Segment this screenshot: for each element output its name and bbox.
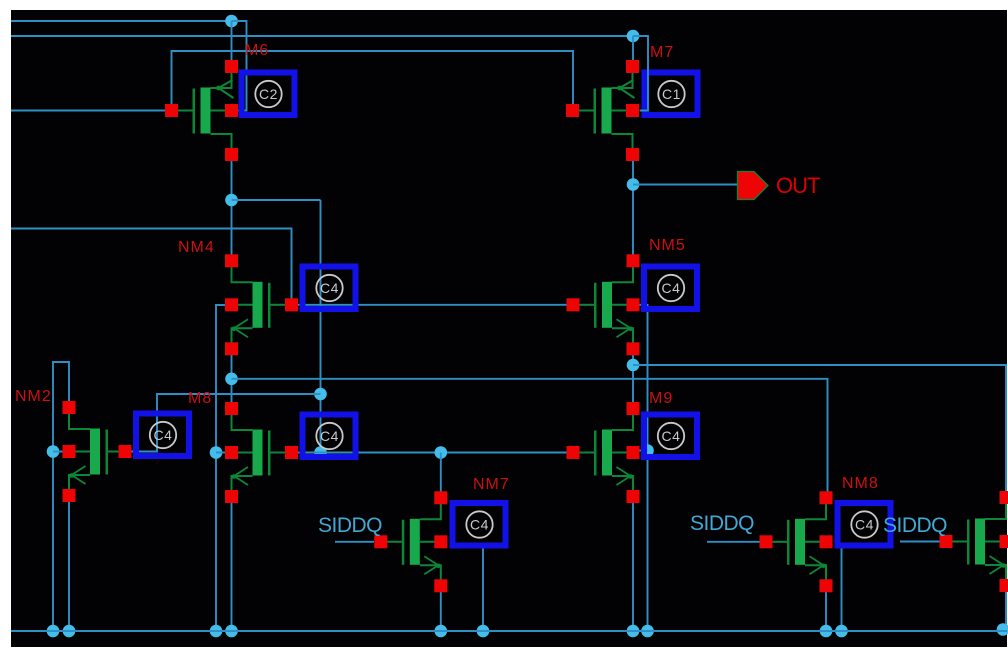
node A at gate line	[314, 446, 327, 459]
wire NM4 bulk drop to ground	[216, 305, 225, 631]
svg-text:NM8: NM8	[842, 475, 879, 492]
node NM2 bulk junction	[47, 445, 60, 458]
wire NM4 gate to NM5 gate link	[298, 304, 568, 306]
wire net B to NM8 drain	[232, 379, 828, 492]
annotation label C4 M9	[658, 423, 684, 449]
annotation box C4 on M9	[644, 415, 697, 458]
svg-text:C4: C4	[662, 280, 681, 296]
node NM7 bulk ground	[477, 625, 490, 638]
node NM7 drain junction	[435, 446, 448, 459]
node C junction	[627, 359, 640, 372]
wire M6 gate input from left	[11, 110, 166, 112]
node M9 source ground	[627, 625, 640, 638]
wire gate line M8 to M9	[298, 452, 568, 454]
svg-text:NM2: NM2	[15, 388, 52, 405]
wire VDD rail 2	[11, 35, 633, 37]
wire M7 bulk tie (drawn over box)	[633, 36, 648, 111]
svg-text:M8: M8	[188, 390, 212, 407]
transistor NM4 (NMOS, mirrored)	[225, 254, 298, 355]
node B junction	[225, 373, 238, 386]
wire right transistor SIDDQ gate stub	[900, 541, 940, 543]
node NM2 source ground	[63, 625, 76, 638]
annotation box C1 on M7	[645, 73, 698, 116]
wire node A branch right	[232, 199, 321, 201]
svg-text:NM4: NM4	[178, 239, 215, 256]
svg-text:C4: C4	[470, 517, 489, 533]
transistor NM8 (NMOS)	[760, 491, 833, 592]
node NM7 source ground	[435, 625, 448, 638]
wire M9 source drop	[632, 497, 634, 631]
svg-text:C1: C1	[662, 86, 681, 102]
wire NM2 drain hook to ground	[53, 362, 69, 631]
annotation box C4 on NM2	[136, 414, 189, 457]
transistor M8 (NMOS, mirrored)	[225, 402, 298, 503]
transistor NM2 (NMOS, mirrored)	[63, 401, 132, 502]
node NM4-M8 bulk junction	[210, 446, 223, 459]
node M9 bulk line ground	[641, 625, 654, 638]
node right transistor source ground	[997, 623, 1008, 636]
svg-text:C4: C4	[662, 428, 681, 444]
svg-text:SIDDQ: SIDDQ	[318, 514, 382, 537]
wire NM8 SIDDQ gate stub	[707, 541, 760, 543]
annotation box C4 on NM8	[838, 503, 891, 546]
annotation label C4 NM2	[150, 422, 176, 448]
wire M6 bulk tie to VDD	[232, 21, 247, 111]
svg-text:M9: M9	[649, 390, 673, 407]
svg-text:SIDDQ: SIDDQ	[690, 512, 754, 535]
wire M6 drain riser	[231, 21, 233, 62]
annotation label C4 NM5	[658, 275, 684, 301]
svg-text:C4: C4	[320, 428, 339, 444]
node NM2 hook ground	[47, 625, 60, 638]
wire node A vertical bus x320	[320, 200, 322, 453]
node VDD M6 junction	[225, 15, 238, 28]
annotation label C4 M8	[316, 423, 342, 449]
svg-text:M7: M7	[650, 44, 674, 61]
transistor at right edge (NMOS, partial)	[940, 491, 1008, 592]
wire VDD rail top	[11, 20, 232, 22]
svg-text:C2: C2	[259, 86, 278, 102]
wire NM7 source drop	[440, 586, 442, 631]
wire NM2 bulk stub	[53, 451, 63, 453]
node NM8 bulk ground	[835, 625, 848, 638]
wire M6 gate to M7 gate mirror link	[172, 51, 574, 104]
wire net C to right transistor drain	[633, 365, 1006, 493]
wire NM4 gate input from left	[11, 229, 292, 300]
node NM5-M9 bulk junction	[641, 444, 654, 457]
annotation label C2	[255, 81, 281, 107]
annotation box C4 on NM5	[644, 267, 697, 310]
svg-text:OUT: OUT	[776, 173, 820, 198]
wire bias line to NM2 gate	[131, 394, 321, 452]
svg-text:NM5: NM5	[649, 237, 686, 254]
wire NM8 source drop	[825, 586, 827, 631]
transistor M6 (PMOS)	[165, 60, 238, 161]
annotation box C2 on M6	[242, 73, 295, 116]
wire ground rail bottom	[11, 630, 1007, 632]
wire M7 drain riser	[632, 36, 634, 62]
wire NM7 drain riser	[440, 453, 442, 494]
transistor NM7 (NMOS)	[374, 491, 447, 592]
wire NM4 source to M8 drain	[231, 349, 233, 409]
node A at bias line	[314, 388, 327, 401]
wire NM8 bulk drop	[841, 543, 843, 631]
svg-text:C4: C4	[320, 280, 339, 296]
wire M7 source to NM5 drain	[632, 155, 634, 259]
annotation box C4 on NM4	[303, 267, 356, 310]
wire M8 source drop	[231, 497, 233, 631]
svg-text:SIDDQ: SIDDQ	[883, 514, 947, 537]
svg-text:C4: C4	[154, 427, 173, 443]
transistor M7 (PMOS)	[566, 60, 639, 161]
node A junction at M6 source	[225, 194, 238, 207]
annotation box C4 on M8	[303, 415, 356, 458]
wire NM2 source drop	[68, 495, 70, 631]
annotation label C1	[658, 81, 684, 107]
annotation label C4 NM8	[851, 511, 877, 537]
transistor M9 (NMOS)	[567, 402, 640, 503]
annotation box C4 on NM7	[453, 503, 506, 546]
wire M8 bulk line ground dot	[210, 625, 223, 638]
transistor NM5 (NMOS)	[567, 254, 640, 355]
node OUT junction	[627, 178, 640, 191]
annotation label C4 NM7	[466, 511, 492, 537]
wire M6 source to NM4 drain	[231, 155, 233, 261]
wire OUT stub	[633, 184, 738, 186]
node VDD2 M7 junction	[627, 30, 640, 43]
wire right transistor source drop	[1005, 586, 1007, 631]
wire NM5 bulk drop to ground	[640, 305, 648, 631]
node M8 source ground	[225, 625, 238, 638]
svg-text:NM7: NM7	[473, 476, 510, 493]
wire NM7 bulk drop	[482, 543, 484, 631]
wire NM5 source to M9 drain	[632, 349, 634, 409]
wire NM7 SIDDQ gate stub	[335, 541, 374, 543]
svg-text:M6: M6	[245, 42, 269, 59]
annotation label C4 NM4	[316, 275, 342, 301]
wire M9 bulk stub	[640, 450, 648, 452]
wire M8 bulk stub	[216, 452, 225, 454]
port OUT arrow	[738, 172, 769, 200]
node NM8 source ground	[820, 625, 833, 638]
svg-text:C4: C4	[855, 517, 874, 533]
